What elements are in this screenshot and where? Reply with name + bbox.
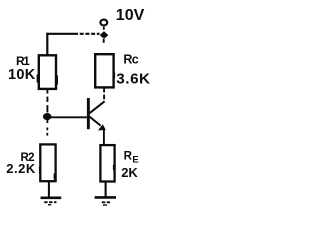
svg-text:Rc: Rc [123,52,138,66]
wire top horizontal dashed part [74,33,100,35]
ground stem below R2 [48,181,50,197]
wire dotted node to R2 [46,128,48,131]
wire stub below arrow [103,39,105,43]
transistor Q1 emitter line [90,117,101,126]
svg-text:3.6K: 3.6K [116,70,150,87]
ground lower dashes below R2 [44,201,56,203]
svg-text:R: R [124,151,133,163]
ground lower dashes below RE [102,201,111,203]
resistor R2 left side mark [39,167,41,174]
transistor Q1 emitter arrowhead [98,124,106,130]
transistor Q1 base bar [87,98,90,129]
resistor R1 [39,55,56,89]
wire dashed R1 to node [46,97,48,102]
ground bar below RE [95,196,116,199]
wire left vertical to R1 [46,33,48,56]
svg-text:E: E [132,154,138,165]
resistor R1 right side mark [55,76,58,85]
resistor Rc right side mark [113,72,115,78]
wire top horizontal [46,33,74,35]
supply arrow diamond at wire end [100,31,109,39]
ground stem below RE [105,181,107,197]
svg-text:R1: R1 [16,54,30,68]
ground bar below R2 [41,196,62,199]
resistor RE right side mark [113,165,116,171]
resistor R2 [40,144,55,181]
resistor R2 right side mark [54,174,57,180]
wire emitter to RE [103,129,105,146]
wire R1 bottom stub [46,89,48,94]
svg-text:2.2K: 2.2K [6,161,36,176]
node base junction diamond [43,113,52,120]
wire dashed collector to Rc [103,88,105,93]
resistor Rc [95,54,113,87]
svg-text:10V: 10V [116,7,145,24]
transistor Q1 collector line [90,101,105,113]
wire base horizontal [49,116,87,118]
svg-text:10K: 10K [8,67,36,83]
resistor R1 left side mark [37,75,39,83]
svg-text:2K: 2K [121,165,138,180]
resistor RE [100,145,114,181]
wire dash below terminal [103,27,105,30]
node Vcc terminal circle [100,20,107,26]
